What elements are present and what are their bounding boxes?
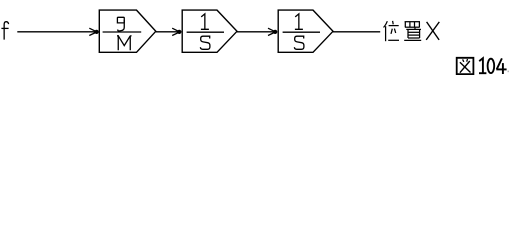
- fraction bar of G3: [283, 31, 320, 33]
- numerator 9 of G1: [117, 17, 124, 31]
- fraction bar of G1: [103, 31, 142, 33]
- fraction bar of G2: [187, 31, 224, 33]
- block G1 pentagon (gain 9/M): [99, 10, 156, 52]
- output label kanji 置: [404, 22, 421, 41]
- numerator 1 of G3: [295, 14, 303, 29]
- stray dot after 104: [508, 71, 509, 73]
- wire W3 from G2 to block G3: [237, 31, 275, 33]
- denominator M of G1: [117, 36, 132, 50]
- numerator 1 of G2: [201, 14, 209, 29]
- wire W4 output from G3 to label: [333, 31, 380, 33]
- block G3 pentagon (integrator 1/S): [278, 10, 333, 52]
- output label kanji 位: [384, 21, 400, 41]
- node f (input signal label): [1, 22, 8, 40]
- caption digit 4 of 104: [496, 58, 506, 74]
- block G2 pentagon (integrator 1/S): [182, 10, 237, 52]
- caption kanji 図: [457, 58, 474, 74]
- arrowhead A1: [89, 28, 97, 35]
- denominator S of G3: [294, 36, 304, 49]
- junction dot J1: [95, 30, 99, 34]
- caption digit 1 of 104: [479, 58, 486, 73]
- junction dot J3: [273, 30, 277, 34]
- output label letter X: [426, 22, 439, 40]
- wire W1 from f to block G1: [17, 31, 96, 33]
- arrowhead A2: [172, 28, 180, 35]
- caption digit 0 of 104: [488, 59, 495, 73]
- denominator S of G2: [200, 36, 210, 49]
- wire W2 from G1 to block G2: [156, 31, 180, 33]
- arrowhead A3: [268, 28, 276, 35]
- junction dot J2: [177, 30, 181, 34]
